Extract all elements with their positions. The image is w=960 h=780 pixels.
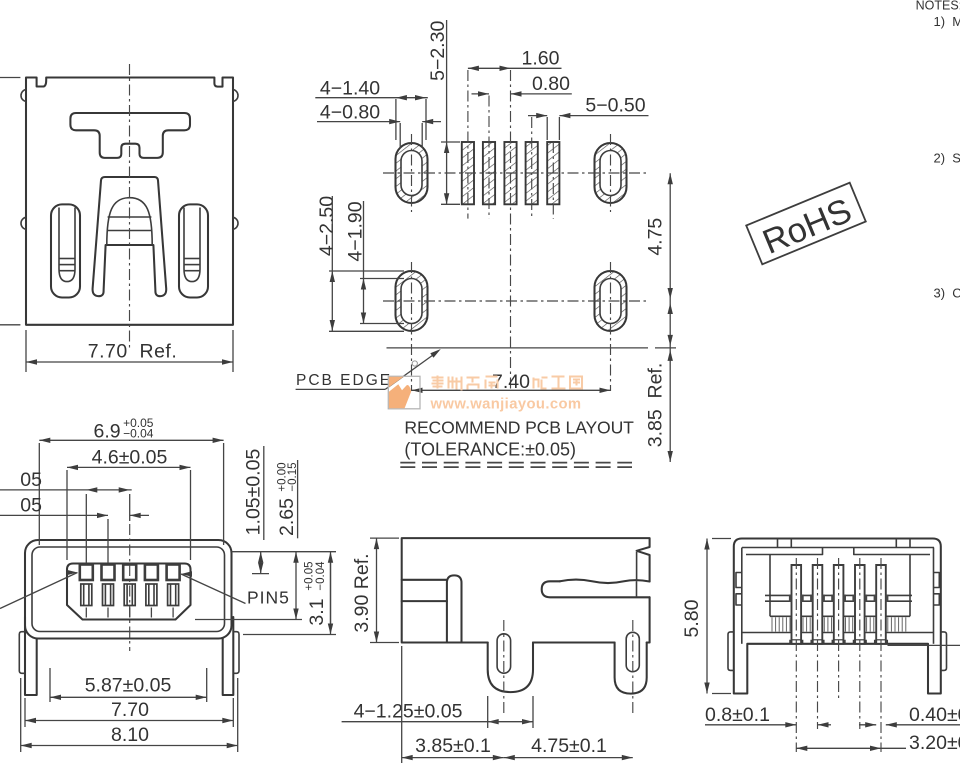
side view: rear leg centerline (632, 620, 634, 716)
pcb layout: hatched pad 4 (526, 142, 538, 204)
dimension 1.05 lower stub (252, 573, 269, 575)
front view: PIN5 leader line (181, 574, 246, 604)
back view: right wall bumps (934, 573, 940, 606)
pcb layout: left ovals vertical centerlines (411, 134, 413, 212)
back view: left side tab (728, 632, 734, 671)
top view: right slot outer (179, 204, 208, 297)
dimension 6.9 line and arrows (39, 439, 223, 441)
watermark logo orange top-left triangle (389, 377, 404, 388)
dimension 5.80 extension stubs (712, 538, 731, 540)
front view: right leg side bump (233, 632, 239, 674)
back view: pin centerlines (795, 558, 797, 752)
top view: right edge bump lower (233, 217, 238, 229)
top view: left edge bump lower (21, 217, 26, 229)
dimension 4.6 extension lines (66, 470, 68, 560)
back view: left inner wall (741, 548, 743, 644)
back view: top edge slot left (777, 539, 779, 548)
pcb layout: oval hole hatched ring at (610.5,173) (595, 143, 627, 203)
svg-text:0.40±0: 0.40±0 (909, 704, 960, 726)
cropped dimension 05 first line and arrows (0, 489, 132, 491)
top view: dome chord line 2 (107, 230, 152, 232)
front view: shell bottom extension to right (243, 634, 336, 636)
dimension 3.90 line and arrows (376, 538, 378, 642)
top view: vertical centerline (129, 64, 131, 348)
dimension 0.80 line and arrows (472, 93, 490, 95)
back view: insulator bottom line (742, 632, 934, 634)
dimension 4.75+-0.1 line and arrows (504, 757, 633, 759)
dimension 4-0.80 line and arrows (317, 121, 400, 123)
side view: left solder tab upper line (402, 579, 447, 581)
connector face reference line (387, 347, 649, 349)
side view: contact pillar with round top (447, 575, 462, 642)
pcb layout: oval hole hatched ring at (411.5,173) (396, 143, 428, 203)
svg-text:1) M: 1) M (934, 14, 960, 29)
svg-text:5.80: 5.80 (681, 599, 703, 637)
svg-text:5.87±0.05: 5.87±0.05 (85, 675, 172, 697)
svg-text:3.85 Ref.: 3.85 Ref. (645, 363, 667, 448)
svg-text:1.05±0.05: 1.05±0.05 (243, 449, 265, 536)
back view: pin foot reference line to right edge (888, 644, 960, 646)
svg-text:4−2.50: 4−2.50 (316, 196, 338, 256)
svg-text:1.60: 1.60 (522, 48, 560, 70)
pcb layout: oval hole inner at (610.5,173) (600, 151, 621, 196)
svg-text:4.75: 4.75 (645, 218, 667, 256)
pcb layout: oval hole hatched ring at (610.5,301) (595, 271, 627, 331)
svg-text:2) S: 2) S (934, 151, 960, 166)
top view: outer shell outline with corner tabs (26, 78, 233, 325)
back view: insulator striping between pins (772, 617, 906, 631)
side view: top-right slot (542, 581, 650, 597)
dimension 5-0.50 extension lines (546, 117, 548, 140)
dimension 7.70 Ref. extension lines (25, 330, 27, 372)
svg-text:7.70: 7.70 (111, 699, 149, 721)
front view: vertical centerline (129, 524, 131, 651)
side view: rear leg (615, 643, 647, 694)
dimension 3.85 Ref arrows (668, 303, 673, 314)
dimension 2.65 underline (297, 460, 299, 538)
svg-text:3.85±0.1: 3.85±0.1 (415, 735, 491, 757)
dimension 5-0.50 line and arrows (528, 115, 547, 117)
dimension 5.87 line and arrows (50, 696, 207, 698)
side view: notch inner vertical (636, 552, 638, 581)
dimension 5-2.30 extension stubs (441, 141, 460, 143)
dimension 3.85+-0.1 extension line (401, 646, 403, 763)
pcb layout: oval hole inner at (610.5,301) (600, 279, 621, 324)
svg-text:4−1.40: 4−1.40 (320, 78, 380, 100)
side view: left solder tab lower line (402, 600, 447, 602)
svg-text:5−2.30: 5−2.30 (427, 21, 449, 81)
dimension 6.9 extension lines (38, 443, 40, 545)
front view: opening bottom extension to right (195, 619, 302, 621)
top view: right edge bump upper (233, 90, 238, 102)
front view: mini-B opening (67, 564, 191, 620)
dimension 7.70 extension lines (24, 698, 26, 727)
dimension 5.87 extension lines (49, 668, 51, 702)
dimension 4-1.40 line and arrows (315, 97, 428, 99)
dimension 3.1 underline (330, 560, 332, 630)
dimension 7.70 Ref. line (26, 361, 233, 363)
top view: right slot inner tube (184, 208, 200, 282)
watermark logo box (388, 376, 420, 409)
svg-text:05: 05 (20, 469, 42, 491)
front view: upper contact row (80, 565, 93, 581)
dimension 4.75 arrows (668, 173, 673, 184)
pcb layout: hatched pad 5 (547, 142, 559, 204)
dimension 0.8 line and arrows (705, 724, 796, 726)
top view: left slot outer (51, 204, 80, 297)
svg-text:3.90 Ref.: 3.90 Ref. (351, 553, 373, 632)
dimension 1.60 line and arrows (468, 67, 562, 69)
pcb layout: oval hole inner at (411.5,301) (401, 279, 422, 324)
pcb layout: hatched pad 3 (504, 142, 516, 204)
svg-text:PCB EDGE: PCB EDGE (296, 372, 392, 389)
pcb layout: oval hole hatched ring at (411.5,301) (396, 271, 428, 331)
svg-text:4.6±0.05: 4.6±0.05 (92, 446, 168, 468)
dimension 0.40 line and arrows (886, 724, 960, 726)
dimension 4-1.25 extension lines (487, 696, 489, 728)
pcb edge label underline (296, 388, 386, 390)
front view: lower contact row (81, 584, 92, 606)
pcb layout: pad vertical centerlines (467, 70, 469, 219)
dimension 5.80 line and arrows (706, 539, 708, 694)
top view: left edge bump upper (21, 90, 26, 102)
svg-text:RECOMMEND PCB LAYOUT: RECOMMEND PCB LAYOUT (404, 418, 634, 438)
dimension 7.70 line and arrows (25, 720, 233, 722)
dimension 4-2.50 line and arrows (331, 196, 333, 331)
dimension 3.1 line and arrows (330, 552, 332, 635)
side view: body outline (402, 538, 650, 642)
top view: cropped left extension line bottom (0, 324, 20, 326)
side view: slot inner stub (636, 581, 638, 597)
back view: insulator block sides (769, 555, 771, 617)
pcb layout: hatched pad 2 (483, 142, 495, 204)
top view: left slot inner tube (59, 208, 75, 282)
top view: stool-shaped contact carrier outline (93, 177, 167, 296)
dimension 5-2.30 line and arrows (446, 20, 448, 204)
dimension 4-1.25 underline and arrows (342, 721, 489, 723)
side view: front leg hole (497, 634, 511, 673)
back view: pins (792, 565, 802, 644)
dimension 8.10 extension lines (20, 678, 22, 752)
side view: slot top edge with wiggles (560, 580, 650, 584)
dimension 8.10 line and arrows (21, 745, 238, 747)
dimension 4-1.90 extension lines (360, 278, 404, 280)
dimension 1.05 line and arrows (260, 552, 262, 574)
side view: front leg (488, 643, 533, 693)
front view: outer shell (25, 540, 232, 639)
front view: left mounting leg (25, 617, 37, 695)
dimension 4.75 line (669, 173, 671, 462)
top view: T-shaped cutout with center tongue (70, 113, 190, 158)
top view: contact dome arch (107, 198, 152, 245)
dimension 2.65 line and arrows (295, 552, 297, 620)
svg-text:6.9: 6.9 (93, 421, 120, 443)
svg-text:−0.04: −0.04 (123, 426, 154, 440)
back view: inner top line (742, 547, 934, 549)
dimension 3.90 extension stubs (370, 537, 399, 539)
front view: pin1 leader line cropped at left (0, 573, 78, 609)
pcb layout: oval hole inner at (411.5,173) (401, 151, 422, 196)
back view: collar band lines (765, 594, 912, 596)
front view: shell top extension to right (232, 551, 337, 553)
front view: right mounting leg (223, 617, 234, 695)
svg-text:7.70 Ref.: 7.70 Ref. (88, 341, 178, 363)
dimension 4-1.40 extension lines (395, 99, 397, 140)
top view: right tube lines (184, 258, 200, 260)
svg-text:8.10: 8.10 (111, 724, 149, 746)
dimension 3.20 connector stub (881, 747, 906, 749)
svg-text:3.20±0: 3.20±0 (909, 732, 960, 754)
top view: left tube lines (59, 258, 75, 260)
side view: rear leg hole (626, 632, 639, 671)
svg-text:(TOLERANCE:±0.05): (TOLERANCE:±0.05) (404, 440, 576, 460)
top view: dome chord line 1 (108, 216, 152, 218)
back view: right side tab (941, 632, 947, 671)
svg-text:+0.05: +0.05 (304, 561, 316, 590)
back view: stepped plate line (746, 548, 930, 555)
watermark registered circle (412, 361, 417, 366)
front view: left leg side bump (19, 632, 25, 674)
svg-text:05: 05 (20, 495, 42, 517)
dimension 4-0.80 extension lines (399, 123, 401, 148)
dimension 4.6 line and arrows (67, 466, 191, 468)
pcb layout: hatched pad 1 (462, 142, 474, 204)
svg-text:www.wanjiayou.com: www.wanjiayou.com (430, 397, 582, 413)
pcb edge dashed line lower (400, 466, 632, 468)
back view: outer shell outline (734, 539, 941, 694)
pcb layout: top row horizontal centerline (383, 172, 648, 174)
dimension 3.20 line and arrows (796, 747, 881, 749)
svg-text:4−0.80: 4−0.80 (320, 102, 380, 124)
dimension 4-2.50 extension lines (329, 270, 404, 272)
svg-text:2.65: 2.65 (276, 498, 298, 536)
svg-text:NOTES:: NOTES: (916, 0, 960, 12)
side view: front leg centerline (503, 620, 505, 716)
dimension 3.85+-0.1 line and arrows (402, 757, 504, 759)
watermark logo orange hand shape (389, 384, 411, 408)
back view: top edge slot right (895, 539, 897, 548)
svg-text:5−0.50: 5−0.50 (585, 95, 645, 117)
svg-text:−0.04: −0.04 (315, 561, 327, 591)
pcb layout: bottom row horizontal centerline (383, 300, 648, 302)
front view: contact centerline stubs (85, 608, 87, 618)
pcb edge dashed line upper (400, 462, 632, 464)
svg-text:4−1.25±0.05: 4−1.25±0.05 (354, 701, 463, 723)
dimension 1.05 underline (263, 446, 265, 540)
svg-text:3) C: 3) C (934, 286, 960, 301)
front view: inner shell (32, 547, 225, 632)
svg-text:0.80: 0.80 (532, 73, 570, 95)
top view: cropped left extension line top (0, 77, 20, 79)
pcb edge leader line (385, 355, 433, 389)
face reference line right stub (655, 347, 676, 349)
dimension 4-1.90 line and arrows (363, 201, 365, 324)
cropped dimension 05 second line and arrows (0, 514, 108, 516)
svg-text:4.75±0.1: 4.75±0.1 (531, 735, 607, 757)
pcb layout: right ovals vertical centerlines (610, 134, 612, 212)
RoHS stamp box (746, 183, 866, 266)
back view: left wall bumps (736, 573, 742, 606)
svg-text:0.8±0.1: 0.8±0.1 (705, 704, 770, 726)
svg-text:3.1: 3.1 (306, 598, 328, 625)
front view: contact extension lines upward (85, 494, 87, 563)
watermark chinese-style glyph marks (432, 376, 444, 389)
dimension 7.40 line and arrows (412, 389, 611, 391)
back view: insulator top line (770, 615, 910, 617)
svg-text:PIN5: PIN5 (247, 588, 290, 608)
back view: right inner wall (933, 548, 935, 644)
